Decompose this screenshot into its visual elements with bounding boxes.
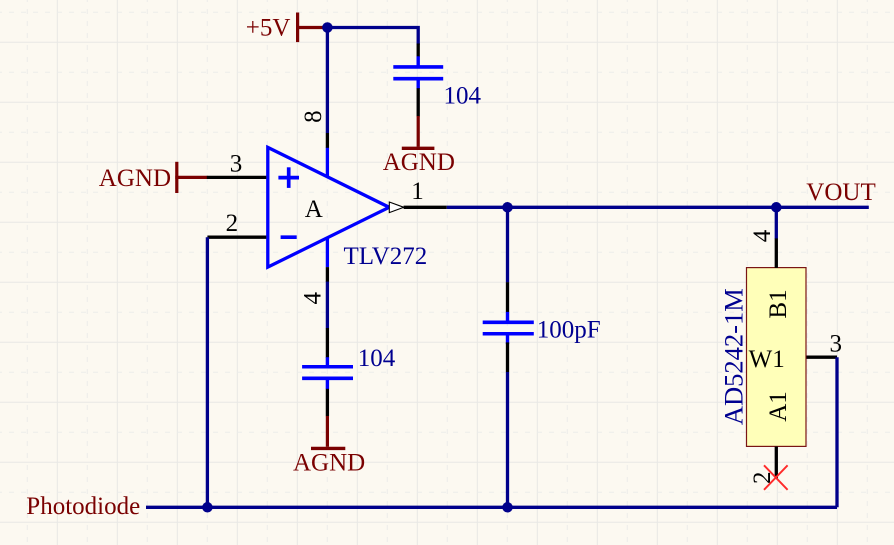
wire +5V down to op-amp pin 8: [326, 28, 329, 134]
capacitor 104 (bottom bypass): [302, 328, 353, 416]
no-ERC marker (red X) on pin 2: [764, 465, 788, 490]
wire op-amp pin4 to bypass cap: [326, 282, 329, 329]
power port AGND (bottom): [293, 416, 365, 476]
svg-text:8: 8: [300, 110, 327, 123]
svg-text:AGND: AGND: [383, 149, 455, 176]
junction bottom rail at inverting column: [202, 502, 213, 513]
wire output down to 100pF: [506, 207, 509, 282]
junction output node at 100pF: [502, 202, 513, 213]
svg-text:Photodiode: Photodiode: [26, 493, 140, 520]
svg-text:4: 4: [299, 292, 326, 305]
svg-text:VOUT: VOUT: [806, 179, 875, 206]
wire VOUT down to digipot pin 4: [775, 207, 778, 238]
svg-text:3: 3: [230, 151, 243, 178]
capacitor 100pF: [483, 282, 534, 372]
svg-text:B1: B1: [765, 289, 792, 318]
svg-text:AD5242-1M: AD5242-1M: [719, 288, 749, 425]
wire bottom rail (Photodiode net): [146, 506, 837, 509]
svg-text:1: 1: [411, 178, 424, 205]
wire 100pF to bottom rail: [506, 372, 509, 507]
svg-text:104: 104: [444, 83, 482, 110]
power port AGND (left, at op-amp pin 3): [99, 162, 208, 193]
svg-text:3: 3: [830, 330, 843, 357]
junction bottom rail at 100pF column: [502, 502, 513, 513]
svg-text:104: 104: [358, 345, 396, 372]
op-amp pin 4: [326, 267, 329, 282]
svg-text:W1: W1: [749, 346, 785, 373]
digipot pin 4 (B1): [775, 238, 778, 268]
op-amp pin 3: [207, 176, 266, 179]
op-amp pin 2: [207, 236, 266, 239]
wire digipot W1 down to bottom rail: [835, 357, 838, 507]
op-amp TLV272 part A: [268, 147, 389, 267]
wire inverting input down to bottom rail: [206, 237, 209, 507]
svg-text:AGND: AGND: [293, 449, 365, 476]
junction +5V node: [322, 22, 333, 33]
digipot pin 2 (A1): [775, 447, 778, 479]
svg-text:A: A: [305, 196, 323, 223]
power port AGND (below top cap): [383, 116, 455, 176]
junction output node at digipot: [771, 202, 782, 213]
svg-text:A1: A1: [765, 391, 792, 422]
svg-text:2: 2: [226, 210, 239, 237]
op-amp pin 8: [326, 133, 329, 148]
svg-text:TLV272: TLV272: [344, 243, 428, 270]
wire +5V horizontal to decoupling cap: [327, 28, 418, 45]
svg-text:4: 4: [749, 229, 776, 242]
svg-text:+5V: +5V: [246, 14, 291, 41]
digipot pin 3 (W1): [807, 356, 838, 359]
capacitor 104 (top decoupling): [393, 44, 443, 117]
op-amp pin 1 output with arrow: [389, 202, 447, 213]
wire output net VOUT: [447, 206, 869, 209]
power port +5V: [246, 13, 328, 43]
svg-text:100pF: 100pF: [537, 316, 601, 343]
digipot AD5242-1M body: [747, 268, 807, 447]
svg-text:AGND: AGND: [99, 165, 171, 192]
